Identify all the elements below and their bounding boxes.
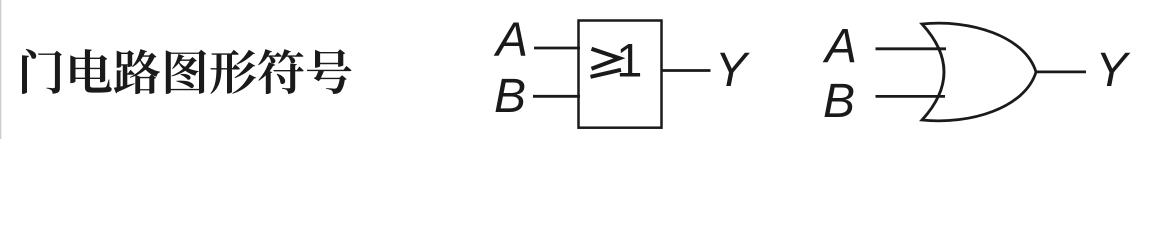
svg-text:Y: Y [715, 44, 750, 97]
IEC OR gate rectangle body [579, 21, 662, 128]
IEC OR gate symbol group [533, 21, 711, 128]
svg-text:B: B [494, 70, 526, 123]
svg-text:A: A [493, 13, 528, 66]
CJK char 符 [258, 49, 304, 94]
CJK char 图 [166, 50, 206, 94]
wire: IEC gate output to Y [662, 69, 711, 72]
qualifier ≥ slanted underline [591, 70, 622, 77]
scan artifact line at left edge [0, 0, 1, 139]
CJK char 电 [70, 49, 111, 93]
CJK char 形 [210, 50, 256, 94]
svg-text:B: B [823, 75, 855, 128]
svg-text:Y: Y [1096, 44, 1131, 97]
CJK char 号 [307, 49, 352, 94]
wire: input A to IEC gate [534, 47, 580, 50]
wire: input B to OR gate [876, 95, 946, 98]
CJK char 门 [22, 49, 62, 94]
svg-text:A: A [822, 20, 857, 73]
CJK char 路 [114, 49, 160, 94]
title text 门电路图形符号 [22, 49, 352, 94]
svg-text:1: 1 [616, 34, 642, 87]
ANSI OR gate distinctive shape outline [922, 23, 1036, 121]
wire: OR gate output to Y [1037, 71, 1086, 74]
wire: input B to IEC gate [533, 95, 580, 98]
qualifier ≥ chevron inside IEC gate [592, 49, 620, 69]
wire: input A to OR gate [876, 47, 947, 50]
ANSI OR gate symbol group [876, 23, 1087, 121]
